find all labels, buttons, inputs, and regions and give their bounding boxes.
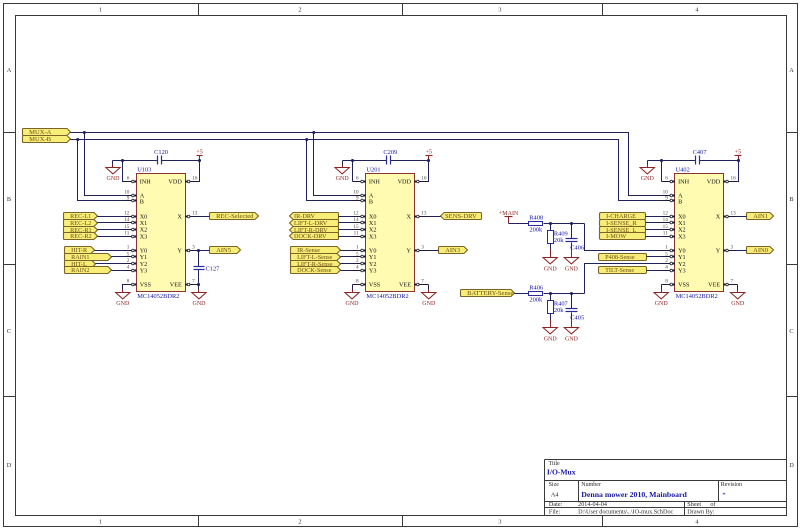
svg-text:Drawn By:: Drawn By: (687, 509, 715, 516)
svg-text:VEE: VEE (170, 282, 182, 289)
svg-text:16: 16 (192, 176, 198, 182)
svg-text:2: 2 (127, 258, 130, 264)
svg-text:U201: U201 (366, 167, 380, 174)
svg-text:2: 2 (298, 6, 301, 13)
svg-text:13: 13 (192, 211, 198, 217)
svg-text:5: 5 (127, 251, 130, 257)
svg-text:15: 15 (663, 224, 669, 230)
svg-text:Y: Y (716, 248, 721, 255)
svg-text:4: 4 (127, 265, 130, 271)
svg-text:SENS-DRV: SENS-DRV (445, 213, 477, 220)
svg-text:C127: C127 (206, 265, 221, 272)
svg-text:3: 3 (498, 519, 501, 526)
svg-text:1: 1 (356, 245, 359, 251)
svg-text:VEE: VEE (399, 282, 411, 289)
svg-text:VDD: VDD (398, 179, 412, 186)
svg-text:GND: GND (193, 301, 207, 307)
svg-text:VSS: VSS (678, 282, 690, 289)
svg-text:GND: GND (544, 266, 558, 272)
svg-text:X3: X3 (678, 233, 686, 240)
svg-text:20k: 20k (554, 237, 564, 244)
svg-text:RAIN2: RAIN2 (71, 267, 89, 274)
svg-text:+MAIN: +MAIN (499, 211, 519, 217)
svg-text:Size: Size (549, 482, 560, 488)
svg-text:AIN0: AIN0 (753, 247, 769, 254)
svg-text:Y: Y (177, 248, 182, 255)
svg-text:20k: 20k (554, 307, 564, 314)
svg-text:9: 9 (127, 195, 130, 201)
svg-text:AIN3: AIN3 (445, 247, 461, 254)
svg-text:Title: Title (549, 461, 560, 467)
svg-text:2: 2 (665, 258, 668, 264)
svg-text:R406: R406 (529, 284, 543, 291)
svg-text:12: 12 (124, 211, 130, 217)
svg-text:DOCK-DRV: DOCK-DRV (294, 233, 327, 240)
svg-text:8: 8 (356, 279, 359, 285)
svg-text:C209: C209 (383, 149, 397, 156)
svg-text:VEE: VEE (708, 282, 720, 289)
svg-text:8: 8 (665, 279, 668, 285)
svg-text:15: 15 (124, 224, 130, 230)
svg-text:X: X (177, 214, 182, 221)
svg-text:3: 3 (498, 6, 501, 13)
svg-text:D: D (7, 462, 12, 469)
svg-text:GND: GND (107, 176, 121, 182)
svg-text:6: 6 (127, 176, 130, 182)
svg-text:X: X (407, 214, 412, 221)
svg-text:VDD: VDD (707, 179, 721, 186)
svg-text:Y3: Y3 (678, 267, 686, 274)
svg-text:1: 1 (127, 245, 130, 251)
svg-text:INH: INH (369, 179, 381, 186)
svg-text:Denna mower 2010, Mainboard: Denna mower 2010, Mainboard (581, 490, 687, 499)
svg-text:GND: GND (565, 336, 579, 342)
svg-text:200k: 200k (529, 297, 543, 304)
svg-text:C: C (7, 328, 11, 335)
svg-text:200k: 200k (529, 227, 543, 234)
svg-text:GND: GND (336, 176, 350, 182)
svg-text:I/O-Mux: I/O-Mux (547, 468, 576, 477)
svg-text:2014-04-04: 2014-04-04 (578, 501, 607, 508)
svg-text:R408: R408 (529, 214, 543, 221)
svg-text:U402: U402 (676, 167, 690, 174)
svg-text:C120: C120 (154, 149, 168, 156)
svg-text:Y: Y (407, 248, 412, 255)
svg-text:7: 7 (421, 279, 424, 285)
svg-text:3: 3 (192, 245, 195, 251)
svg-text:+5: +5 (426, 150, 432, 156)
svg-text:MC14052BDR2: MC14052BDR2 (366, 293, 408, 300)
svg-text:8: 8 (127, 279, 130, 285)
svg-text:C407: C407 (693, 149, 708, 156)
svg-text:GND: GND (346, 301, 360, 307)
svg-text:12: 12 (663, 211, 669, 217)
svg-text:AIN1: AIN1 (753, 213, 768, 220)
svg-text:REC-Selected: REC-Selected (216, 213, 254, 220)
svg-text:C406: C406 (570, 245, 584, 252)
svg-text:1: 1 (665, 245, 668, 251)
svg-text:I-MOW: I-MOW (606, 233, 626, 240)
svg-text:VSS: VSS (140, 282, 152, 289)
svg-text:VDD: VDD (168, 179, 182, 186)
svg-text:REC-R2: REC-R2 (70, 233, 92, 240)
svg-text:1: 1 (99, 6, 102, 13)
svg-text:BATTERY-Sense: BATTERY-Sense (467, 290, 513, 297)
svg-text:B: B (140, 198, 144, 205)
svg-text:P408-Sense: P408-Sense (605, 254, 635, 261)
svg-text:X3: X3 (140, 233, 148, 240)
svg-text:Sheet of: Sheet of (687, 501, 716, 508)
svg-text:D:\User documents\..\IO-mux.Sc: D:\User documents\..\IO-mux.SchDoc (578, 509, 673, 516)
svg-text:+5: +5 (735, 150, 741, 156)
svg-text:C: C (789, 328, 793, 335)
svg-text:MUX-B: MUX-B (29, 136, 52, 143)
svg-text:Y3: Y3 (140, 267, 148, 274)
svg-text:GND: GND (116, 301, 130, 307)
svg-text:12: 12 (353, 211, 359, 217)
svg-text:13: 13 (731, 211, 737, 217)
svg-text:B: B (7, 196, 11, 203)
svg-text:B: B (789, 196, 793, 203)
svg-text:U103: U103 (137, 167, 151, 174)
svg-text:1: 1 (99, 519, 102, 526)
svg-text:B: B (369, 198, 373, 205)
svg-text:11: 11 (124, 230, 129, 236)
svg-text:GND: GND (731, 301, 745, 307)
svg-text:16: 16 (731, 176, 737, 182)
svg-text:AIN5: AIN5 (216, 247, 232, 254)
svg-text:9: 9 (665, 195, 668, 201)
svg-text:A4: A4 (551, 491, 559, 498)
svg-text:GND: GND (422, 301, 436, 307)
svg-text:5: 5 (356, 251, 359, 257)
svg-text:4: 4 (665, 265, 668, 271)
svg-text:TILT-Sense: TILT-Sense (605, 267, 634, 274)
svg-text:GND: GND (565, 266, 579, 272)
svg-text:3: 3 (421, 245, 424, 251)
svg-text:Revision: Revision (721, 482, 742, 488)
svg-text:C405: C405 (570, 315, 584, 322)
svg-text:13: 13 (421, 211, 427, 217)
svg-text:6: 6 (665, 176, 668, 182)
svg-text:A: A (7, 67, 12, 74)
svg-text:14: 14 (663, 217, 669, 223)
svg-text:15: 15 (353, 224, 359, 230)
svg-text:3: 3 (731, 245, 734, 251)
svg-text:Date:: Date: (549, 501, 563, 508)
svg-text:+5: +5 (196, 150, 202, 156)
svg-text:MC14052BDR2: MC14052BDR2 (137, 293, 179, 300)
svg-text:Number: Number (581, 482, 601, 488)
svg-text:2: 2 (356, 258, 359, 264)
svg-text:*: * (722, 491, 725, 498)
svg-text:GND: GND (641, 176, 655, 182)
svg-text:6: 6 (356, 176, 359, 182)
svg-text:11: 11 (354, 230, 359, 236)
svg-text:DOCK-Sense: DOCK-Sense (297, 267, 332, 274)
svg-text:File:: File: (549, 509, 561, 516)
svg-text:A: A (789, 67, 794, 74)
svg-text:4: 4 (356, 265, 359, 271)
svg-text:11: 11 (663, 230, 668, 236)
svg-text:VSS: VSS (369, 282, 381, 289)
svg-text:2: 2 (298, 519, 301, 526)
svg-text:7: 7 (731, 279, 734, 285)
svg-text:9: 9 (356, 195, 359, 201)
svg-text:14: 14 (124, 217, 130, 223)
svg-text:5: 5 (665, 251, 668, 257)
svg-text:X: X (716, 214, 721, 221)
svg-text:MC14052BDR2: MC14052BDR2 (676, 293, 718, 300)
svg-text:D: D (789, 462, 794, 469)
svg-text:GND: GND (544, 336, 558, 342)
svg-text:GND: GND (655, 301, 669, 307)
svg-text:14: 14 (353, 217, 359, 223)
svg-text:7: 7 (192, 279, 195, 285)
svg-text:B: B (678, 198, 682, 205)
svg-text:X3: X3 (369, 233, 377, 240)
svg-text:INH: INH (140, 179, 152, 186)
svg-text:INH: INH (678, 179, 690, 186)
svg-text:16: 16 (421, 176, 427, 182)
svg-text:Y3: Y3 (369, 267, 377, 274)
